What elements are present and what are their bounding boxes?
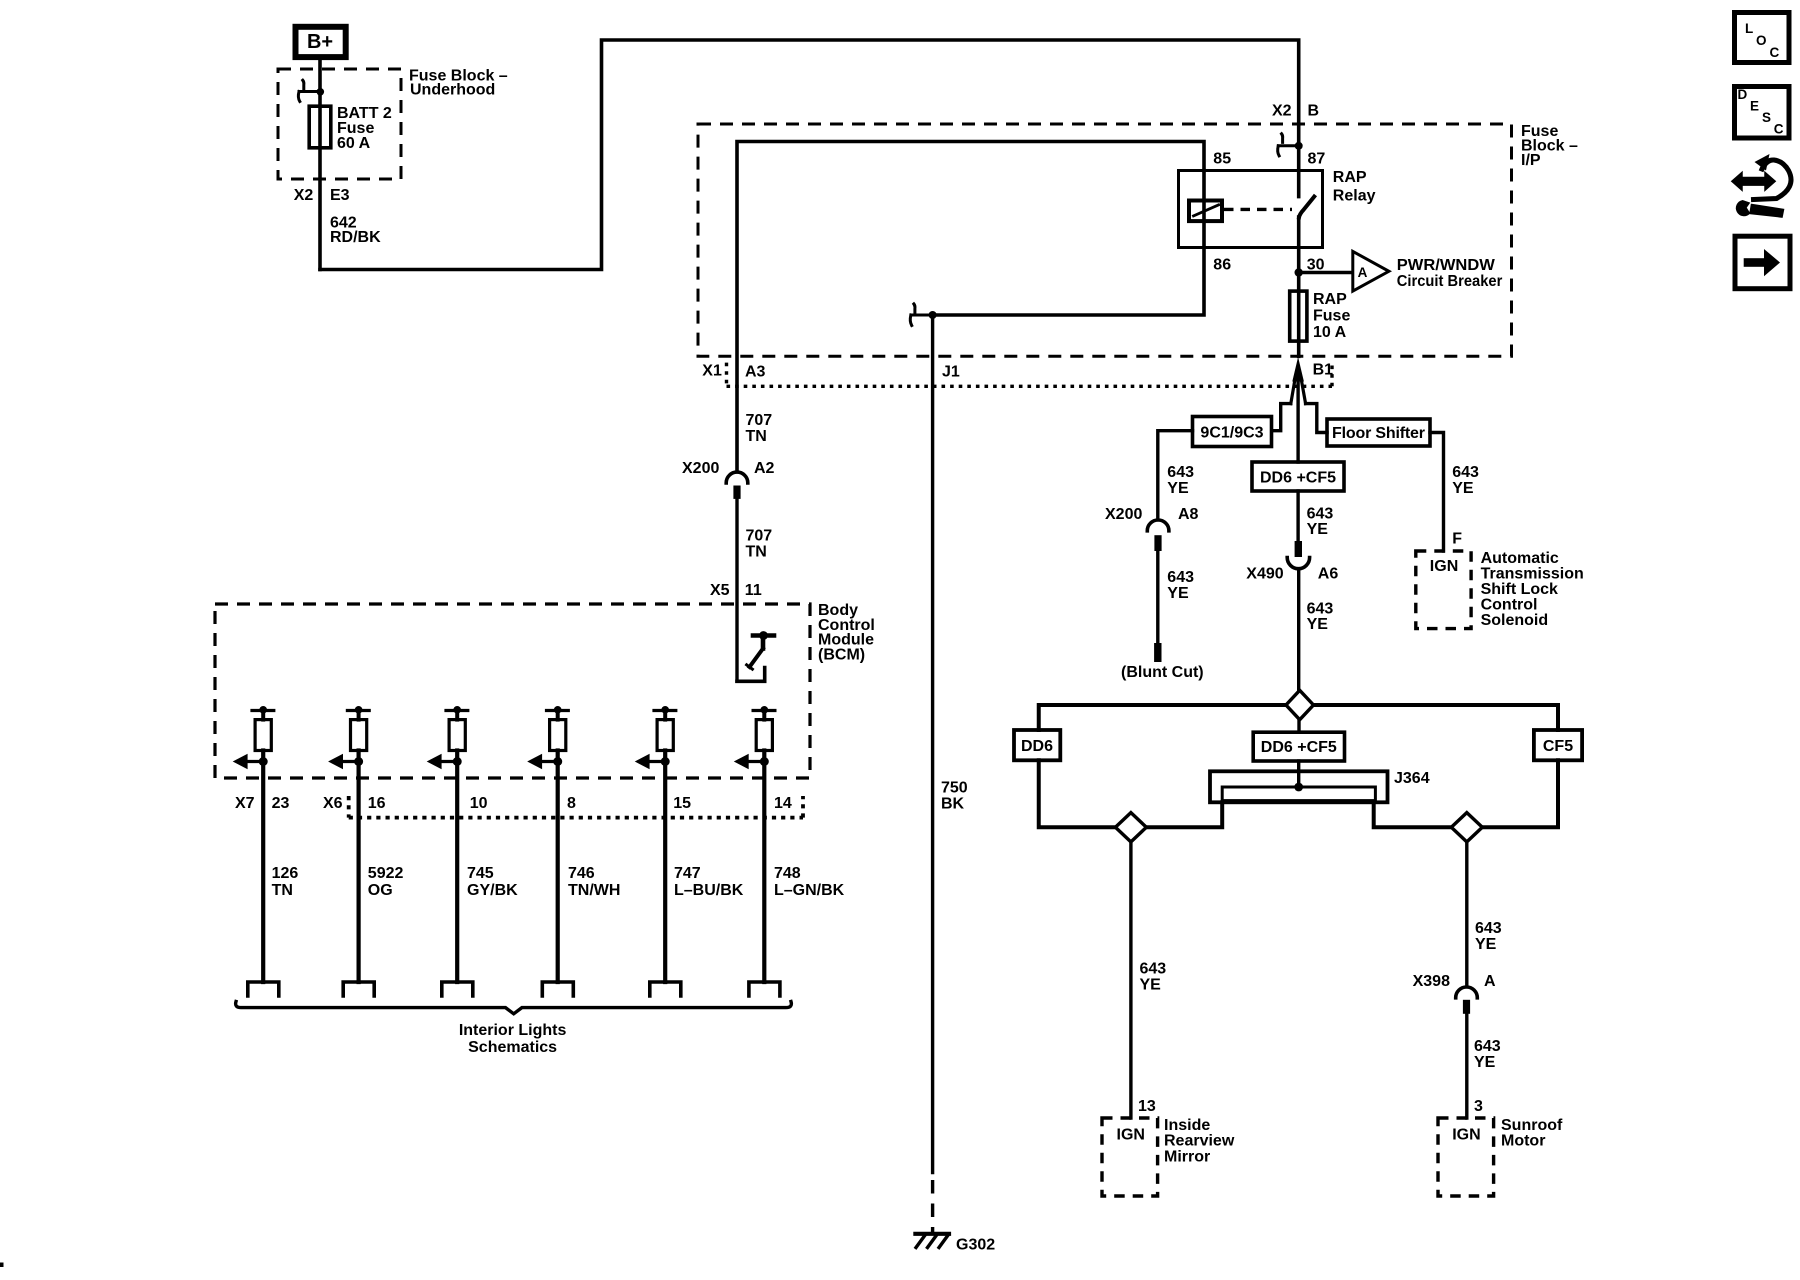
splice clip at J1 ground junction: [910, 304, 930, 326]
svg-text:TN: TN: [272, 882, 293, 899]
svg-text:X490: X490: [1246, 566, 1283, 583]
wire label 126 TN: [272, 865, 299, 899]
svg-text:87: 87: [1308, 151, 1326, 168]
off-page terminal 5: [650, 982, 681, 996]
svg-text:Sunroof: Sunroof: [1501, 1117, 1563, 1134]
wire left diamond to J364: [1146, 802, 1222, 827]
BCM internal switch arm: [747, 636, 763, 670]
sidebar icon LOC: [1735, 13, 1790, 63]
wire relay pin 86 down and left to ground junction: [933, 171, 1204, 316]
relay actuation dashed link: [1224, 208, 1292, 211]
wire label 643 YE right branch: [1452, 464, 1479, 497]
svg-text:I/P: I/P: [1521, 152, 1541, 169]
svg-text:Shift Lock: Shift Lock: [1481, 581, 1558, 598]
connector label X2 E3: [294, 187, 350, 204]
svg-text:9C1/9C3: 9C1/9C3: [1200, 424, 1263, 441]
off-page terminal 2: [343, 982, 374, 996]
svg-text:L–BU/BK: L–BU/BK: [674, 882, 744, 899]
wire B1 to 9C1/9C3: [1272, 404, 1291, 431]
svg-text:X200: X200: [682, 460, 719, 477]
wire B1 to floor shifter: [1306, 404, 1327, 433]
wire J364 to right diamond: [1374, 802, 1452, 827]
svg-text:YE: YE: [1307, 521, 1329, 538]
svg-text:C: C: [1770, 45, 1780, 60]
sidebar icon DESC: [1735, 87, 1790, 139]
svg-text:CF5: CF5: [1543, 738, 1573, 755]
wire label 748 L-GN/BK: [774, 865, 845, 899]
svg-text:Underhood: Underhood: [410, 82, 495, 99]
svg-text:643: 643: [1452, 464, 1479, 481]
svg-text:RAP: RAP: [1333, 169, 1367, 186]
label Inside Rearview Mirror: [1164, 1117, 1235, 1165]
wire label 643 YE center lower: [1307, 600, 1334, 633]
BCM output driver 3: [427, 706, 468, 982]
svg-text:10 A: 10 A: [1313, 324, 1347, 341]
svg-text:3: 3: [1474, 1098, 1483, 1115]
BCM internal switch contact: [737, 668, 765, 682]
BCM output driver 6: [734, 706, 775, 982]
svg-text:Interior Lights: Interior Lights: [459, 1022, 567, 1039]
svg-text:YE: YE: [1167, 480, 1189, 497]
svg-text:86: 86: [1213, 256, 1231, 273]
in-line connector X200 A8: [1147, 520, 1169, 551]
wire label 746 TN/WH: [568, 865, 620, 899]
svg-text:GY/BK: GY/BK: [467, 882, 518, 899]
svg-text:B+: B+: [307, 31, 333, 53]
in-line connector X398 A: [1456, 987, 1478, 1014]
svg-text:X2: X2: [294, 187, 314, 204]
wire label 745 GY/BK: [467, 865, 518, 899]
svg-text:Automatic: Automatic: [1481, 550, 1559, 567]
inside rearview mirror IGN dashed box: [1102, 1118, 1158, 1196]
automatic transmission shift lock control solenoid IGN dashed box: [1416, 551, 1471, 629]
splice collector at B1: [1291, 357, 1306, 404]
blunt cut terminal: [1154, 643, 1161, 662]
svg-text:746: 746: [568, 865, 595, 882]
page speck bottom left: [0, 1263, 4, 1268]
svg-text:IGN: IGN: [1452, 1127, 1480, 1144]
svg-text:15: 15: [673, 795, 691, 812]
wire left diamond to inside rearview mirror: [1129, 842, 1132, 1118]
label BATT 2 Fuse 60 A: [337, 105, 392, 152]
ground G302: [915, 1234, 949, 1248]
wire CF5 to right diamond: [1482, 760, 1558, 827]
svg-text:126: 126: [272, 865, 299, 882]
junction dot at BATT 2 fuse clip: [317, 88, 325, 96]
connector label X398 A: [1413, 973, 1496, 990]
label Automatic Transmission Shift Lock Control Solenoid: [1481, 550, 1584, 629]
wire X200 A2 to BCM pin 11: [735, 499, 738, 681]
svg-text:X7: X7: [235, 795, 255, 812]
svg-text:A6: A6: [1318, 566, 1339, 583]
svg-text:Transmission: Transmission: [1481, 566, 1584, 583]
schematic reference box DD6: [1014, 730, 1060, 760]
svg-text:X1: X1: [702, 362, 722, 379]
wire X398 to sunroof motor: [1465, 1014, 1468, 1118]
svg-text:643: 643: [1475, 920, 1502, 937]
svg-text:643: 643: [1474, 1038, 1501, 1055]
wire 9C1/9C3 branch down to X200 A8: [1158, 431, 1193, 520]
off-page terminal 3: [442, 982, 473, 996]
battery feed B+ symbol: [296, 27, 346, 57]
svg-text:747: 747: [674, 865, 701, 882]
svg-text:O: O: [1756, 33, 1767, 48]
svg-text:X2: X2: [1272, 102, 1292, 119]
relay switch arm 87 to 30: [1299, 197, 1314, 218]
bus wire top left to DD6: [1039, 705, 1286, 730]
svg-text:Motor: Motor: [1501, 1133, 1545, 1150]
junction dot at J364: [1294, 783, 1303, 792]
connector band dotted outline X1: [727, 363, 1333, 387]
wire DD6+CF5 to X490: [1296, 491, 1299, 541]
svg-text:A2: A2: [754, 460, 775, 477]
svg-text:11: 11: [745, 582, 762, 599]
BCM output driver 5: [635, 706, 676, 982]
label Fuse Block I/P: [1521, 123, 1578, 169]
junction dot at X2 B: [1295, 142, 1303, 150]
wire label 643 YE left branch lower: [1167, 569, 1194, 602]
junction dot at BCM switch pivot: [759, 631, 768, 640]
svg-text:23: 23: [272, 795, 290, 812]
svg-text:A: A: [1484, 973, 1496, 990]
fuse BATT 2 60 A: [309, 106, 331, 148]
label Interior Lights Schematics: [459, 1022, 567, 1056]
splice diamond right: [1451, 813, 1482, 842]
label Body Control Module (BCM): [818, 602, 875, 663]
svg-text:L: L: [1745, 21, 1753, 36]
svg-text:RAP: RAP: [1313, 291, 1347, 308]
sunroof motor IGN dashed box: [1438, 1118, 1494, 1196]
wire top diamond to DD6+CF5 lower: [1297, 720, 1300, 733]
svg-text:643: 643: [1167, 464, 1194, 481]
busbar J364 inner: [1222, 787, 1375, 801]
junction dot at J1 feed: [929, 311, 937, 319]
BCM output driver 1: [233, 706, 274, 982]
svg-text:S: S: [1762, 110, 1771, 125]
svg-text:16: 16: [368, 795, 386, 812]
label Fuse Block Underhood: [409, 68, 508, 99]
svg-text:X5: X5: [710, 582, 730, 599]
svg-text:DD6 +CF5: DD6 +CF5: [1260, 469, 1336, 486]
svg-text:745: 745: [467, 865, 494, 882]
fuse clip terminal at BATT 2 fuse: [298, 80, 319, 101]
wire to PWR/WNDW circuit breaker: [1299, 271, 1352, 275]
svg-text:Solenoid: Solenoid: [1481, 612, 1549, 629]
connector label X2 B at fuse block I/P: [1272, 102, 1319, 119]
svg-text:Relay: Relay: [1333, 187, 1376, 204]
wire label 643 YE sunroof branch lower: [1474, 1038, 1501, 1071]
connector X6 dotted bracket: [349, 796, 803, 818]
svg-text:Mirror: Mirror: [1164, 1148, 1210, 1165]
svg-text:X200: X200: [1105, 506, 1142, 523]
svg-text:8: 8: [567, 795, 576, 812]
svg-text:(Blunt Cut): (Blunt Cut): [1121, 664, 1204, 681]
splice diamond top at DD6+CF5 bus: [1286, 690, 1314, 719]
off-page terminal 4: [542, 982, 573, 996]
svg-text:E3: E3: [330, 187, 350, 204]
wire right diamond to X398: [1465, 842, 1468, 987]
svg-text:10: 10: [470, 795, 488, 812]
svg-text:707: 707: [746, 528, 773, 545]
svg-text:B: B: [1308, 102, 1320, 119]
svg-text:(BCM): (BCM): [818, 646, 865, 663]
wire label 643 YE left branch upper: [1167, 464, 1194, 497]
svg-text:643: 643: [1307, 505, 1334, 522]
svg-text:707: 707: [746, 412, 773, 429]
BCM output driver 2: [328, 706, 369, 982]
svg-text:TN: TN: [746, 428, 767, 445]
wire 750 BK ground run: [931, 315, 934, 1173]
svg-text:BK: BK: [941, 795, 965, 812]
svg-text:DD6: DD6: [1021, 738, 1053, 755]
curly brace interior lights: [236, 1002, 792, 1014]
svg-text:A3: A3: [745, 364, 766, 381]
wire DD6 to left diamond splice: [1039, 760, 1116, 827]
svg-text:PWR/WNDW: PWR/WNDW: [1397, 257, 1496, 274]
label Sunroof Motor: [1501, 1117, 1563, 1150]
svg-text:TN: TN: [746, 544, 767, 561]
wire label 5922 OG: [368, 865, 404, 899]
junction dot at relay pin 30 circuit breaker tap: [1295, 268, 1303, 276]
wire DD6+CF5 lower to J364 busbar: [1297, 761, 1300, 787]
schematic reference box DD6 +CF5 lower: [1253, 732, 1344, 761]
wire X200 A8 to blunt cut: [1156, 551, 1159, 643]
svg-text:G302: G302: [956, 1236, 995, 1253]
RAP relay box: [1179, 171, 1323, 248]
splice diamond left: [1115, 813, 1146, 842]
fuse block underhood dashed box: [278, 69, 401, 179]
wire label 707 TN upper: [746, 412, 773, 445]
svg-text:14: 14: [774, 795, 792, 812]
label PWR/WNDW Circuit Breaker: [1397, 257, 1503, 290]
off-page terminal 1: [248, 982, 279, 996]
svg-text:A: A: [1358, 265, 1368, 280]
wire label 707 TN lower: [746, 528, 773, 561]
bus wire top right to CF5: [1314, 705, 1559, 730]
svg-text:D: D: [1738, 87, 1748, 102]
svg-text:643: 643: [1167, 569, 1194, 586]
svg-text:643: 643: [1140, 961, 1167, 978]
svg-text:Floor Shifter: Floor Shifter: [1332, 425, 1425, 442]
wire label 750 BK: [941, 780, 968, 813]
fuse RAP 10 A: [1290, 291, 1307, 341]
BCM output driver 4: [527, 706, 568, 982]
wire fuse block I/P internal feed to relay pin 85: [737, 142, 1204, 471]
connector label X490 A6: [1246, 566, 1338, 583]
svg-text:750: 750: [941, 780, 968, 797]
busbar J364 outer: [1210, 771, 1388, 802]
fuse clip terminal at RAP relay pin 87 feed: [1278, 134, 1297, 156]
relay coil: [1189, 201, 1222, 222]
wire X490 to top diamond splice: [1297, 569, 1300, 691]
svg-text:E: E: [1750, 99, 1759, 114]
svg-text:YE: YE: [1307, 616, 1329, 633]
svg-text:DD6 +CF5: DD6 +CF5: [1261, 739, 1337, 756]
svg-text:TN/WH: TN/WH: [568, 882, 620, 899]
svg-text:A8: A8: [1178, 506, 1199, 523]
svg-text:IGN: IGN: [1117, 1127, 1145, 1144]
schematic reference box DD6 +CF5 upper: [1252, 462, 1344, 491]
svg-text:643: 643: [1307, 600, 1334, 617]
wire label 747 L-BU/BK: [674, 865, 744, 899]
svg-text:IGN: IGN: [1430, 558, 1458, 575]
svg-text:85: 85: [1213, 151, 1231, 168]
svg-text:Rearview: Rearview: [1164, 1133, 1235, 1150]
label RAP Relay: [1333, 169, 1376, 204]
svg-text:748: 748: [774, 865, 801, 882]
label RAP Fuse 10 A: [1313, 291, 1350, 341]
connector label X5 11: [710, 582, 762, 599]
svg-text:B1: B1: [1313, 362, 1334, 379]
schematic reference box 9C1/9C3: [1193, 417, 1272, 447]
in-line connector X200 A2: [726, 472, 748, 499]
svg-text:L–GN/BK: L–GN/BK: [774, 882, 845, 899]
wire 642 RD/BK long run to fuse block I/P: [320, 40, 1299, 270]
svg-text:YE: YE: [1167, 585, 1189, 602]
svg-text:OG: OG: [368, 882, 393, 899]
svg-text:Schematics: Schematics: [468, 1039, 557, 1056]
svg-text:Circuit Breaker: Circuit Breaker: [1397, 273, 1503, 290]
wire label 643 YE center upper: [1307, 505, 1334, 538]
svg-text:YE: YE: [1474, 1054, 1496, 1071]
wire B+ to fuse block underhood vertical: [318, 57, 322, 270]
svg-text:X398: X398: [1413, 973, 1450, 990]
svg-text:YE: YE: [1475, 936, 1497, 953]
svg-text:J364: J364: [1394, 770, 1430, 787]
wire label 643 YE mirror branch: [1140, 961, 1167, 994]
svg-text:YE: YE: [1452, 480, 1474, 497]
wire 750 BK dashed continuation: [931, 1180, 934, 1234]
svg-text:YE: YE: [1140, 977, 1162, 994]
wire floor shifter to shift lock solenoid: [1430, 433, 1444, 552]
fuse block I/P dashed box: [698, 124, 1512, 356]
svg-text:Fuse: Fuse: [1313, 307, 1350, 324]
svg-text:Control: Control: [1481, 597, 1538, 614]
sidebar icon forward arrow box: [1735, 236, 1790, 289]
connector label X200 A2: [682, 460, 775, 477]
svg-text:J1: J1: [942, 364, 960, 381]
wire label 643 YE sunroof branch upper: [1475, 920, 1502, 953]
PWR/WNDW circuit breaker triangle A: [1353, 251, 1389, 291]
svg-text:60 A: 60 A: [337, 135, 371, 152]
svg-text:F: F: [1452, 530, 1462, 547]
wire relay pin 30 down to RAP fuse: [1297, 217, 1301, 356]
wire label 642 RD/BK: [330, 215, 381, 247]
sidebar icon swap arrow with wrench: [1733, 154, 1791, 217]
off-page terminal 6: [749, 982, 780, 996]
body control module dashed box: [215, 604, 810, 778]
schematic reference box CF5: [1534, 730, 1582, 760]
svg-text:C: C: [1774, 122, 1784, 137]
connector label X200 A8: [1105, 506, 1199, 523]
wire B1 to DD6+CF5: [1296, 380, 1299, 462]
BCM internal switch pivot bar: [753, 633, 774, 638]
in-line connector X490 A6: [1287, 541, 1309, 569]
svg-text:5922: 5922: [368, 865, 404, 882]
svg-text:13: 13: [1138, 1098, 1156, 1115]
svg-text:RD/BK: RD/BK: [330, 229, 381, 246]
schematic reference box Floor Shifter: [1327, 419, 1430, 446]
svg-text:X6: X6: [323, 795, 343, 812]
svg-text:Inside: Inside: [1164, 1117, 1210, 1134]
connector pin labels X7 23 X6 16 10 8 15 14: [235, 795, 792, 812]
connector band labels X1 A3 J1 B1: [702, 362, 1333, 381]
